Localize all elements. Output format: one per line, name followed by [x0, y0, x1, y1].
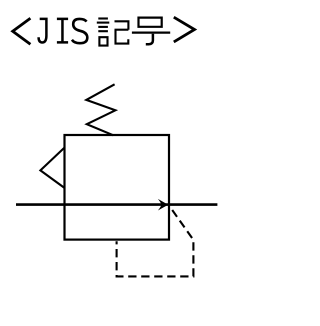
title letter J	[39, 19, 47, 43]
flow arrowhead	[158, 199, 168, 211]
relief triangle (left side)	[40, 148, 64, 189]
title kanji 号 (bottom hook)	[146, 34, 153, 45]
title left angle bracket "<"	[13, 18, 31, 44]
adjustment spring (zigzag on top)	[86, 84, 115, 135]
pilot line (dashed feedback loop)	[117, 206, 194, 276]
title letter I	[57, 19, 68, 43]
title right angle bracket ">"	[174, 17, 195, 42]
title kanji 記 (left radical 言)	[97, 19, 110, 46]
title kanji 号 (long bar)	[132, 31, 170, 33]
title kanji 号 (top box)	[139, 18, 162, 27]
flow line (horizontal)	[16, 203, 217, 206]
title letter S	[72, 19, 87, 43]
title kanji 記 (right part 己)	[115, 21, 129, 43]
regulator body (square valve box)	[65, 135, 170, 240]
